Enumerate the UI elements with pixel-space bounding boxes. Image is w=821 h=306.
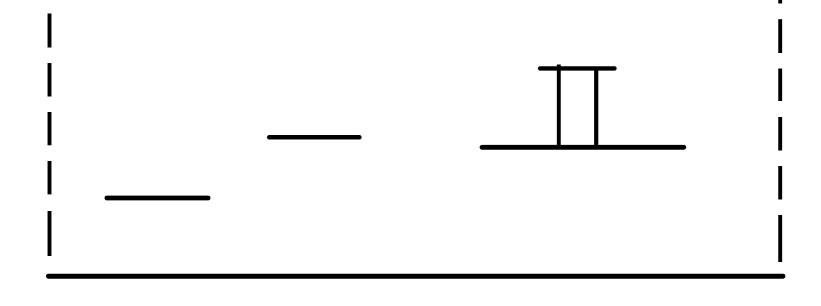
wire: bottom rail [49,274,783,279]
wire: structure left leg [557,65,561,148]
wire: structure right leg [594,67,598,148]
wire: structure top bar [540,66,614,70]
right boundary dashed line [778,0,782,262]
wire: middle level segment [269,135,359,140]
wire: structure bottom bar [482,145,684,150]
wire: lower-left level segment [107,196,208,201]
left boundary dashed line [48,14,52,257]
